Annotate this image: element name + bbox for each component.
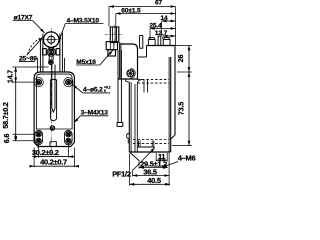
svg-text:4–ø5.2: 4–ø5.2 [83,87,103,94]
svg-text:25~89: 25~89 [19,56,37,63]
svg-text:3–M4X13: 3–M4X13 [81,110,109,117]
svg-text:6.6: 6.6 [2,134,11,144]
svg-text:M5x16: M5x16 [76,59,96,66]
svg-text:67: 67 [155,0,163,7]
svg-text:14: 14 [160,15,168,22]
svg-text:73.5: 73.5 [176,102,185,115]
svg-text:0: 0 [104,89,106,93]
svg-text:12.7: 12.7 [155,30,168,37]
svg-text:40.2±0.7: 40.2±0.7 [40,157,67,166]
svg-text:60±1.5: 60±1.5 [121,8,141,15]
svg-text:26: 26 [176,55,185,63]
svg-text:PF1/2: PF1/2 [112,169,131,178]
svg-text:4–M3.5X10: 4–M3.5X10 [67,17,100,24]
svg-text:4–M6: 4–M6 [178,154,196,163]
svg-text:25.4: 25.4 [149,23,162,30]
svg-text:40.5: 40.5 [147,176,161,185]
svg-text:58.7±0.2: 58.7±0.2 [1,102,10,129]
svg-text:30.2±0.2: 30.2±0.2 [32,148,59,157]
svg-text:14.7: 14.7 [5,70,14,83]
svg-text:ø17X7: ø17X7 [14,14,33,21]
svg-text:36.5: 36.5 [143,167,157,176]
